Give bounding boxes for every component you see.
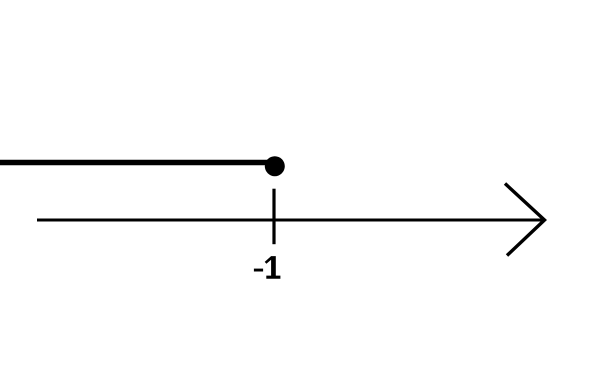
closed endpoint dot at -1	[265, 156, 285, 176]
label -1	[254, 256, 281, 279]
tick mark at -1	[272, 189, 275, 245]
ray (bold segment from left edge to -1)	[0, 160, 268, 166]
arrowhead (right end of axis)	[505, 184, 545, 256]
number line axis	[37, 219, 545, 222]
